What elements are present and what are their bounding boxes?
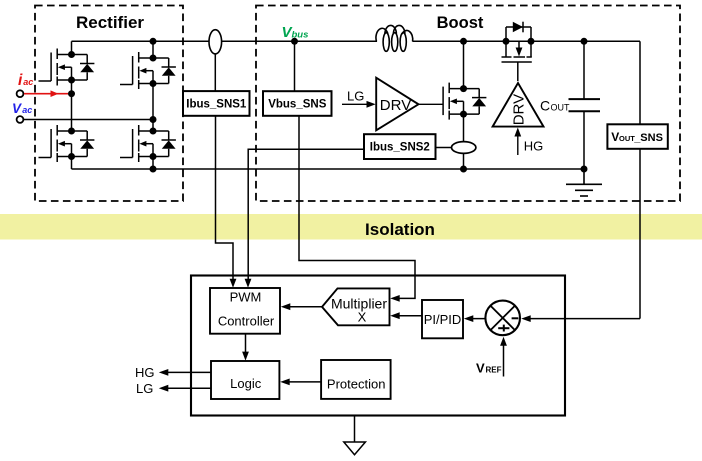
svg-text:REF: REF [486,365,502,374]
svg-text:PI/PID: PI/PID [424,312,462,327]
svg-text:i: i [18,72,23,89]
svg-text:ac: ac [23,77,33,87]
svg-text:Boost: Boost [437,14,484,32]
svg-text:bus: bus [292,30,309,41]
svg-text:LG: LG [136,381,153,396]
svg-text:X: X [358,310,367,325]
svg-text:Controller: Controller [218,313,275,328]
svg-text:Isolation: Isolation [365,220,435,239]
svg-text:Ibus_SNS2: Ibus_SNS2 [370,142,430,154]
svg-text:PWM: PWM [230,289,262,304]
svg-text:V: V [476,360,485,375]
svg-text:LG: LG [347,88,364,103]
svg-text:Protection: Protection [327,377,386,392]
svg-text:Vbus_SNS: Vbus_SNS [268,99,326,111]
svg-text:C: C [540,98,550,114]
svg-text:Rectifier: Rectifier [76,13,144,32]
svg-text:OUT: OUT [551,103,571,113]
svg-text:HG: HG [135,365,155,380]
svg-text:Ibus_SNS1: Ibus_SNS1 [186,99,247,111]
svg-text:V: V [12,101,22,116]
svg-text:_SNS: _SNS [633,132,663,144]
svg-text:DRV: DRV [511,94,528,125]
svg-text:ac: ac [22,105,32,115]
svg-text:OUT: OUT [619,134,635,143]
svg-text:HG: HG [524,139,544,154]
svg-text:V: V [611,130,619,144]
svg-text:DRV: DRV [380,97,411,114]
svg-text:Logic: Logic [230,376,262,391]
